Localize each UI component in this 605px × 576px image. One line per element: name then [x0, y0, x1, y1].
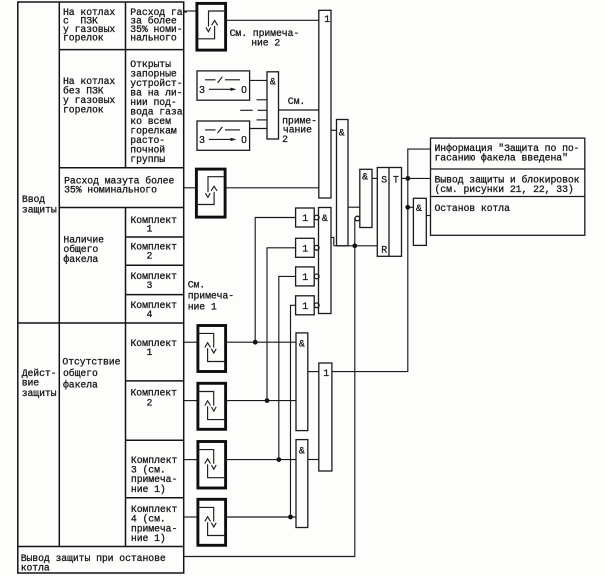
svg-text:факела: факела	[63, 254, 98, 265]
svg-text:35% номинального: 35% номинального	[64, 185, 157, 196]
wire B5 to D6a	[227, 459, 296, 461]
wire table to B6	[184, 516, 196, 518]
cell text: Na kotlakh s PZK	[63, 7, 115, 44]
wire vyvod pri ostanove to R line	[184, 246, 354, 557]
svg-text:1: 1	[324, 14, 330, 25]
wire D2 out jog to R line	[331, 237, 334, 245]
AND gate D4 (before trigger)	[355, 169, 372, 227]
svg-text:1: 1	[302, 301, 308, 312]
cell text: Raskhod mazuta	[64, 175, 174, 195]
svg-text:&: &	[270, 77, 276, 88]
cell text: Komplekt 1 (deystvie)	[131, 338, 178, 358]
junction at D5 input	[405, 205, 410, 210]
cell text: Komplekt 3 (sm. prim.)	[131, 455, 178, 495]
svg-text:3: 3	[199, 85, 205, 96]
svg-text:1: 1	[302, 213, 308, 224]
row divider r11/r12	[18, 546, 184, 548]
cell text: Komplekt 2 (deystvie)	[131, 388, 178, 409]
time relay box A	[197, 71, 250, 100]
svg-text:факела: факела	[63, 379, 98, 390]
AND gate D6 (komplekty 1,2)	[296, 333, 308, 431]
svg-text:Комплект: Комплект	[131, 338, 178, 349]
wire B2 to OR D1	[226, 187, 318, 189]
svg-text:котла: котла	[21, 563, 50, 574]
row divider r4/r5	[126, 236, 184, 238]
wire table to B1	[184, 10, 195, 12]
svg-text:1: 1	[323, 368, 329, 379]
cell text: Otsutstvie obshchego fakela	[62, 357, 120, 391]
svg-text:Комплект: Комплект	[131, 215, 178, 226]
svg-text:1: 1	[302, 272, 308, 283]
cell text: Deystvie zashchity	[22, 368, 57, 399]
row divider r1/r2	[59, 49, 183, 51]
riser r4 to N4	[291, 305, 296, 517]
svg-text:(см. рисунки 21, 22, 33): (см. рисунки 21, 22, 33)	[435, 184, 574, 195]
svg-text:0: 0	[241, 135, 247, 146]
pulse block B2 (raskhod mazuta)	[196, 169, 225, 217]
NOR gate N1	[296, 208, 320, 227]
svg-text:S: S	[381, 174, 387, 185]
svg-text:примеча-: примеча-	[188, 291, 234, 302]
riser r3 to N3	[279, 276, 296, 459]
junction T output	[405, 176, 410, 181]
svg-text:&: &	[322, 213, 328, 224]
NOR gate N2	[296, 238, 320, 257]
svg-text:1: 1	[147, 224, 153, 235]
wire D6 out to OR D7	[308, 371, 319, 373]
table column divider col1/col2	[58, 2, 60, 547]
cell text: Komplekt 1	[131, 215, 178, 235]
AND gate D2 (tall, flame present)	[319, 208, 332, 314]
OR gate D1	[319, 10, 331, 198]
pulse block B4 (komplekt 2)	[198, 383, 226, 429]
svg-text:См.: См.	[188, 280, 205, 291]
wire D4 out to S input	[372, 177, 377, 179]
svg-text:Останов котла: Останов котла	[435, 203, 511, 214]
junction riser r3	[276, 457, 281, 462]
row divider r6/r7	[126, 294, 184, 296]
note text sm. primechanie 2	[230, 28, 300, 49]
wire D6a out to OR D7	[308, 459, 319, 461]
svg-text:&: &	[362, 172, 368, 183]
svg-text:горелок: горелок	[63, 32, 104, 43]
AND gate D0 (zapornye)	[267, 72, 279, 139]
wire junction to D5	[408, 206, 414, 208]
cell text: Komplekt 2	[131, 242, 178, 262]
NOR gate N3	[296, 267, 320, 286]
svg-text:T: T	[393, 174, 399, 185]
svg-text:&: &	[416, 203, 422, 214]
row divider r10/r11	[126, 497, 184, 499]
svg-text:0: 0	[241, 85, 247, 96]
riser r2 to N2	[267, 248, 296, 401]
svg-text:3: 3	[147, 280, 153, 291]
NOR gate N4	[296, 296, 320, 315]
svg-text:ние 1: ние 1	[188, 301, 217, 312]
output info box	[431, 138, 585, 235]
wire D1 out to D2	[331, 129, 337, 131]
cell text: Vyvod zashchity pri ostanove kotla	[21, 553, 166, 574]
riser r1 to N1	[255, 218, 295, 343]
wire D0 to OR D1	[279, 109, 319, 111]
wire feedback to inverted input	[354, 219, 356, 246]
svg-text:ние 1): ние 1)	[131, 484, 166, 495]
wire to informatsiya box	[408, 149, 431, 178]
svg-text:&: &	[299, 339, 305, 350]
svg-text:1: 1	[147, 347, 153, 358]
row divider r9/r10	[126, 439, 184, 441]
cell text: Komplekt 3	[131, 271, 178, 291]
cell text: Nalichie obshchego fakela	[63, 235, 104, 265]
table outer frame	[18, 2, 184, 573]
note text sm. primechanie 2 (middle)	[282, 96, 317, 145]
text vyvod zashchity i blokirovok	[435, 175, 580, 195]
svg-text:гасанию факела введена": гасанию факела введена"	[435, 153, 568, 164]
wire table to B4	[184, 400, 196, 402]
cell text: Vvod zashchity	[22, 194, 57, 215]
row divider r2/r3	[59, 167, 183, 169]
svg-text:ние 1): ние 1)	[131, 533, 166, 544]
cell text: Komplekt 4	[131, 300, 178, 320]
wire down to D5 and OR D7	[332, 178, 408, 371]
svg-text:&: &	[299, 446, 305, 457]
wire box B to D0	[250, 128, 267, 130]
svg-text:Комплект: Комплект	[131, 271, 178, 282]
section divider vvod/deystvie	[18, 322, 184, 324]
svg-text:Комплект: Комплект	[131, 388, 178, 399]
svg-text:группы: группы	[130, 154, 165, 165]
svg-text:ние 2: ние 2	[251, 38, 280, 49]
junction riser r2	[265, 398, 270, 403]
wire D3 out to D4	[348, 206, 360, 208]
svg-text:См.: См.	[288, 96, 305, 107]
svg-text:защиты: защиты	[22, 204, 57, 215]
cell text: Otkryty zapornye	[130, 59, 182, 165]
svg-text:нального: нального	[130, 32, 177, 43]
AND gate D5 (ostanov)	[413, 198, 426, 245]
cell text: Raskhod gaza	[130, 7, 188, 44]
svg-text:горелок: горелок	[63, 104, 104, 115]
wire table to B2	[184, 187, 195, 189]
svg-text:2: 2	[147, 398, 153, 409]
row divider r3/r4	[59, 207, 183, 209]
svg-text:Комплект: Комплект	[131, 242, 178, 253]
AND gate D6a (komplekty 3,4)	[296, 440, 308, 528]
note text sm. primechanie 1	[188, 280, 234, 313]
svg-text:&: &	[339, 128, 345, 139]
dashed input stubs D0	[240, 100, 267, 120]
wire D5 to ostanov box	[426, 215, 430, 217]
svg-text:2: 2	[147, 251, 153, 262]
wire B4 to D6	[227, 400, 296, 402]
pulse block B1 (raskhod gaza)	[197, 3, 226, 50]
wire B1 to OR D1	[227, 19, 319, 21]
svg-text:1: 1	[302, 243, 308, 254]
cell text: Komplekt 4 (sm. prim.)	[131, 504, 178, 544]
AND gate D3 (upper tall)	[337, 120, 349, 246]
wire box A to D0	[250, 79, 267, 81]
junction riser r4	[288, 515, 293, 520]
svg-text:3: 3	[199, 135, 205, 146]
wire B3 to D6	[227, 341, 296, 343]
cell text: Na kotlakh bez PZK	[63, 76, 115, 115]
svg-text:4: 4	[147, 309, 153, 320]
svg-text:Комплект: Комплект	[131, 300, 178, 311]
pulse block B3 (komplekt 1)	[198, 326, 226, 372]
time relay box B	[197, 121, 250, 150]
row divider r5/r6	[126, 264, 184, 266]
svg-text:защиты: защиты	[22, 388, 57, 399]
svg-text:Отсутствие: Отсутствие	[62, 357, 120, 368]
table column divider col2/col3	[125, 2, 127, 547]
pulse block B6 (komplekt 4)	[198, 499, 226, 545]
pulse block B5 (komplekt 3)	[198, 442, 226, 489]
trigger ST flip-flop box	[377, 168, 401, 257]
wire table to B5	[184, 459, 196, 461]
wire table to B3	[184, 341, 196, 343]
text informatsiya	[435, 143, 580, 164]
OR gate D7	[319, 363, 332, 471]
wire B6 to D6a	[227, 516, 296, 518]
junction riser r1	[253, 340, 258, 345]
junction R line	[352, 243, 357, 248]
svg-text:общего: общего	[63, 368, 98, 379]
wire T output	[402, 177, 431, 179]
wire R line	[334, 245, 378, 247]
svg-text:R: R	[381, 244, 387, 255]
svg-text:2: 2	[282, 134, 288, 145]
row divider r8/r9	[126, 380, 184, 382]
